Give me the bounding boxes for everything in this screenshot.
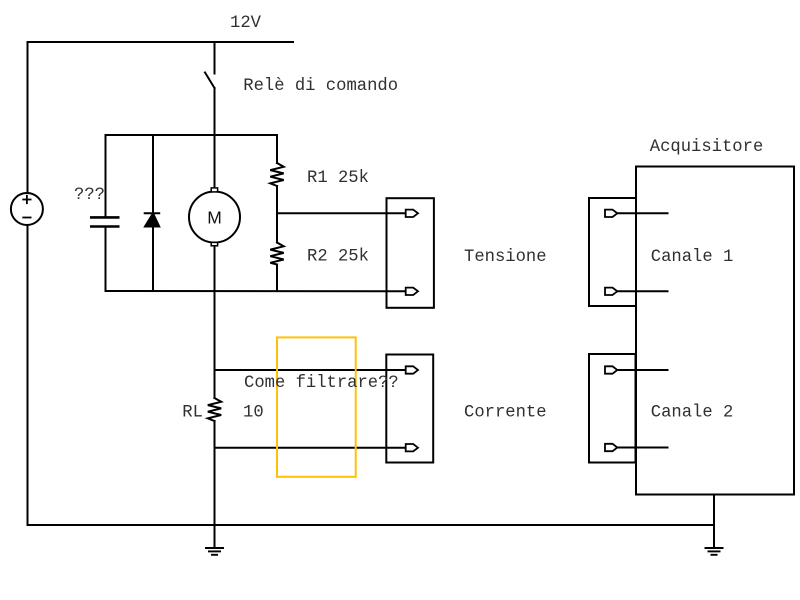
svg-text:10: 10: [243, 404, 264, 423]
svg-text:Come filtrare??: Come filtrare??: [244, 374, 399, 393]
svg-text:Canale 2: Canale 2: [651, 404, 734, 423]
svg-text:Corrente: Corrente: [464, 404, 547, 423]
svg-text:R1 25k: R1 25k: [307, 169, 369, 188]
svg-text:M: M: [207, 208, 222, 228]
svg-text:Tensione: Tensione: [464, 248, 547, 267]
svg-text:Acquisitore: Acquisitore: [650, 138, 763, 157]
svg-text:Canale 1: Canale 1: [651, 248, 734, 267]
svg-text:RL: RL: [182, 404, 203, 423]
svg-text:12V: 12V: [230, 14, 262, 33]
svg-text:???: ???: [74, 186, 105, 205]
svg-text:Relè di comando: Relè di comando: [243, 77, 398, 96]
svg-text:R2 25k: R2 25k: [307, 248, 369, 267]
